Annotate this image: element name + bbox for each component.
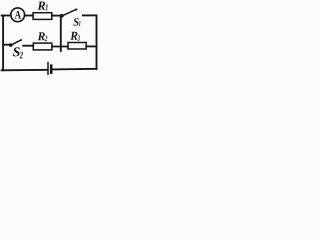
switch S2 blade [12, 40, 21, 45]
wire S1 to top-right corner [83, 14, 97, 16]
switch S1 blade [63, 9, 77, 15]
label S2 subscript 2 [20, 52, 23, 59]
switch S2 blade tip knob [20, 39, 22, 41]
battery BT1 short plate [50, 66, 53, 73]
label R2 letter R [38, 32, 45, 40]
label R3 letter R [70, 32, 77, 40]
wire S2 to R2 [23, 45, 33, 47]
switch S2 pivot dot [9, 43, 13, 47]
wire bottom right (battery to corner) [52, 68, 96, 71]
label R2 subscript 2 [45, 36, 47, 42]
label S1 letter S [73, 18, 78, 25]
wire top-left to ammeter [2, 15, 11, 17]
wire left rail [2, 16, 4, 71]
wire right rail [96, 15, 98, 69]
wire middle-left stub from rail to S2 [3, 44, 9, 46]
resistor R2 [33, 43, 52, 50]
ammeter A1 [11, 8, 25, 22]
wire ammeter to R1 [25, 15, 33, 17]
label R1 subscript 1 [46, 4, 48, 10]
wire R1 to node J1 [52, 15, 61, 17]
label R1 letter R [38, 2, 46, 10]
wire R2 to R3 through node J2 [52, 46, 68, 48]
switch S1 pivot dot / node J1 [60, 14, 64, 18]
label S1 subscript 1 [79, 21, 81, 26]
label R3 subscript 3 [78, 35, 80, 41]
label S2 letter S [13, 47, 20, 56]
battery BT1 long plate [47, 63, 49, 75]
switch S1 blade tip knob [75, 9, 77, 11]
wire R3 to right rail [86, 45, 96, 47]
resistor R1 [33, 13, 52, 20]
label A (ammeter) [15, 11, 21, 19]
resistor R3 [68, 43, 86, 50]
wire bottom left (corner to battery) [2, 69, 47, 72]
wire vertical from node J1 to middle row [60, 16, 62, 52]
